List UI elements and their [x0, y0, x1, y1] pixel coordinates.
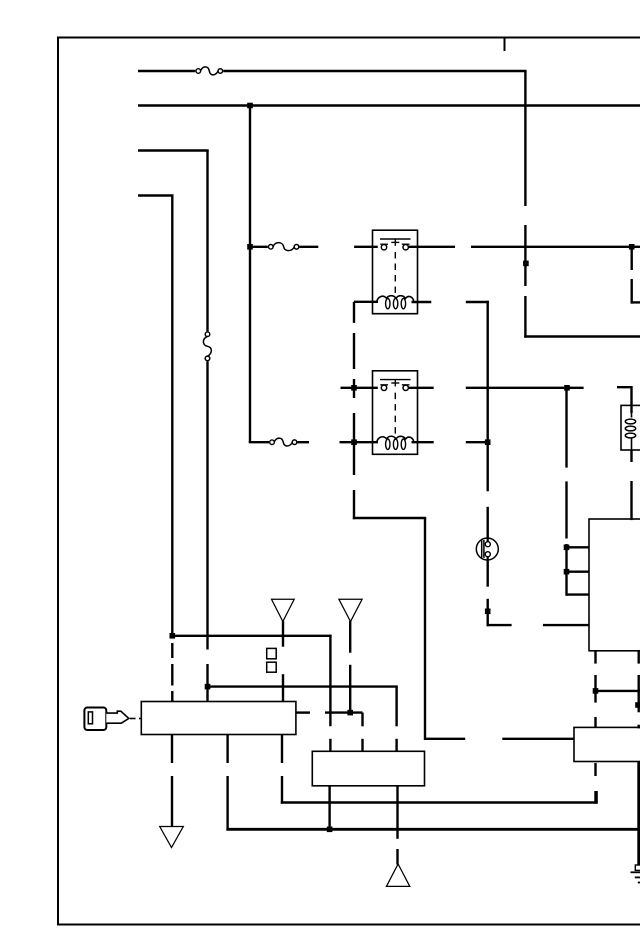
key dash	[130, 718, 136, 720]
connector T3	[160, 827, 184, 848]
junction x250-y247	[247, 244, 253, 250]
wire x632 down to exit	[631, 247, 633, 304]
stub x566-y595	[567, 593, 590, 595]
wire x595 below J1	[594, 763, 596, 804]
wire y518 link	[353, 517, 426, 519]
junction y388-x567	[564, 385, 570, 391]
wire y829	[226, 828, 640, 831]
connector dot on x525	[523, 261, 529, 267]
wire y687	[208, 685, 398, 687]
wire x487 lamp lower	[487, 560, 489, 627]
wire x396 dash	[395, 739, 397, 752]
wire exit right y302	[631, 301, 640, 303]
wire x330 down	[329, 635, 331, 727]
junction y712-x350	[347, 710, 353, 716]
junction x487-y442	[485, 439, 491, 445]
wire link y691	[596, 690, 640, 692]
ignition key symbol	[84, 708, 128, 731]
wire y802 right corner up	[595, 791, 597, 803]
wire relay1 contact feed	[250, 246, 268, 248]
ignition switch SW1 box	[141, 702, 296, 735]
frame tick mark	[504, 38, 506, 51]
junction x354-y388	[351, 385, 357, 391]
wire x638 to ground	[637, 762, 640, 866]
wire y195 left	[138, 194, 174, 196]
lamp B1	[476, 538, 498, 560]
wire x397 below K3	[396, 786, 398, 865]
wire x362 down	[361, 713, 363, 752]
wire vertical x174	[171, 196, 173, 702]
wire y636	[172, 635, 331, 637]
fuse F3 vertical	[203, 332, 211, 361]
wire x329 below K3	[328, 786, 330, 830]
junction bus-x250	[247, 103, 253, 109]
ignition switch right stub	[296, 711, 310, 713]
wire bus y105	[138, 104, 640, 106]
stub x566-y571	[567, 571, 590, 573]
junction box J1	[574, 727, 640, 761]
wire coil L1 to ECU box	[630, 450, 632, 520]
wire y802	[281, 801, 598, 803]
wire vertical x525 down	[524, 71, 526, 338]
frame top border	[57, 37, 640, 39]
connector block squares lower	[267, 662, 277, 672]
wire elbow to coil L1	[617, 387, 632, 413]
wire x487 down	[487, 301, 489, 442]
wire x227 down	[226, 735, 228, 831]
wire vertical x250	[249, 104, 251, 442]
control unit U1 box	[589, 519, 640, 651]
connector T1	[272, 599, 295, 621]
ground G1	[631, 865, 640, 883]
relay K2	[373, 371, 418, 455]
fuse F2	[269, 243, 299, 251]
wire x487 lamp upper	[487, 442, 489, 542]
junction x595-y691	[593, 688, 599, 694]
wire y150 left	[138, 149, 209, 151]
fuse F1	[196, 67, 223, 75]
wire x171 to T3	[171, 735, 173, 827]
wire fuse4-to-relay2	[298, 441, 379, 443]
wire x595 below box	[594, 651, 596, 728]
frame bottom border	[57, 924, 640, 926]
wire x638 below box	[638, 651, 640, 729]
stub x566-y547	[567, 546, 590, 548]
wire exit right y336	[524, 335, 640, 337]
junction x354-y442	[351, 439, 357, 445]
wire below T2 x350	[349, 621, 351, 713]
wire relay2 coil feed corner	[249, 441, 251, 442]
frame left border	[57, 37, 59, 926]
wire fuse2-to-relay1	[300, 246, 378, 248]
relay K1	[373, 230, 418, 314]
wire relay1 coil right	[412, 301, 489, 303]
connector T4	[386, 864, 409, 886]
junction x207-y687	[205, 684, 211, 690]
junction x566-y547	[564, 545, 570, 551]
connector dot x638-y705	[635, 702, 640, 708]
junction x329-y829	[327, 827, 333, 833]
wire hot-feed y71 right	[223, 70, 526, 72]
wire below T1 x283	[282, 621, 284, 702]
wire hot-feed y71 left	[138, 70, 195, 72]
wire y739 to J1	[425, 738, 574, 740]
wire x566 down	[565, 387, 567, 596]
wire relay1 out right	[409, 246, 640, 248]
wire vertical x207	[206, 151, 208, 702]
connector block squares upper	[267, 648, 277, 658]
wire x396 down	[395, 687, 397, 727]
wire x282 down	[281, 735, 283, 804]
relay box K3	[312, 751, 424, 786]
wire x354 inter-relay	[353, 302, 355, 519]
wire relay1 coil left elbow	[354, 301, 378, 303]
connector dot x487-y611	[485, 609, 491, 615]
wire lamp to box y625	[487, 624, 590, 626]
key tick	[139, 718, 141, 720]
coil L1 winding	[625, 413, 635, 450]
wire coil2 feed left	[249, 441, 269, 443]
wire y712 segment	[325, 711, 363, 713]
junction y247-x632	[629, 244, 635, 250]
coil L1 box	[621, 405, 640, 450]
fuse F4	[270, 438, 297, 446]
wire relay2 contact left	[341, 387, 378, 389]
wire x425 down	[424, 518, 426, 740]
junction x174-y636	[170, 633, 176, 639]
junction x566-y571	[564, 569, 570, 575]
wire relay2 coil right	[412, 441, 488, 443]
wire relay2 contact right	[409, 387, 584, 389]
connector T2	[339, 599, 362, 621]
wire x330 dash	[329, 739, 331, 752]
